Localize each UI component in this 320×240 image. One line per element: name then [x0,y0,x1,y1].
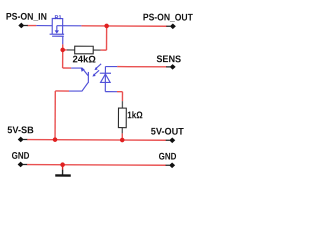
svg-text:PS-ON_OUT: PS-ON_OUT [143,12,193,23]
svg-text:GND: GND [159,152,177,163]
svg-text:PS-ON_IN: PS-ON_IN [6,12,47,23]
svg-text:24kΩ: 24kΩ [72,54,96,65]
svg-text:SENS: SENS [156,54,181,65]
svg-text:R1: R1 [55,15,62,21]
svg-text:1kΩ: 1kΩ [127,110,143,121]
svg-text:5V-OUT: 5V-OUT [151,126,184,137]
svg-text:GND: GND [12,151,30,162]
svg-text:5V-SB: 5V-SB [7,125,34,136]
